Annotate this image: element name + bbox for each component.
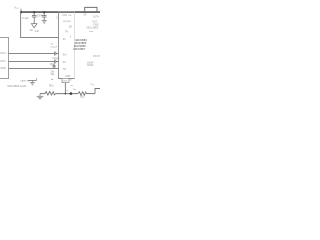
svg-text:CF: CF (30, 29, 34, 32)
label dash mark (51, 78, 53, 80)
svg-text:1nF: 1nF (35, 30, 40, 33)
svg-text:SD: SD (69, 25, 73, 28)
svg-text:IN-: IN- (63, 61, 66, 64)
node VCC label top-left (14, 5, 19, 10)
label right stack 2 (92, 20, 98, 23)
label C5 value (50, 64, 56, 66)
svg-text:GND: GND (65, 75, 71, 78)
pin number 4 (70, 79, 73, 82)
ground G3 (37, 94, 44, 99)
wire GND drop (64, 83, 66, 94)
svg-text:GND: GND (0, 67, 6, 70)
capacitor C1 (32, 13, 37, 24)
pin label right inside a (69, 25, 73, 28)
component FB small box under IC (62, 78, 69, 82)
svg-text:OUT+: OUT+ (93, 17, 100, 19)
wire case gnd (28, 80, 37, 82)
svg-text:50Ω LINES: 50Ω LINES (87, 27, 99, 29)
resistor R2 (78, 92, 87, 95)
label case gnd note (20, 80, 29, 83)
label right stack 5 (89, 30, 94, 33)
svg-text:RD1: RD1 (49, 84, 54, 87)
label right mid 3 (87, 65, 94, 67)
node junction dot E (70, 92, 73, 95)
label C1 value (22, 17, 29, 20)
capacitor C2 (42, 13, 47, 20)
node junction dot C (43, 11, 45, 13)
pin label IN- (63, 61, 66, 64)
label right mid 1 (93, 56, 101, 58)
svg-text:100nF: 100nF (87, 65, 94, 67)
label CD value (35, 30, 40, 33)
label right stack 4 (87, 27, 99, 29)
svg-text:VCC IN: VCC IN (93, 56, 100, 58)
label R2 (80, 96, 85, 99)
capacitor C3 series (55, 52, 56, 56)
wire VCC rail (21, 11, 100, 13)
pin number mark (70, 37, 72, 39)
svg-text:SC: SC (63, 68, 67, 71)
op-amp U1 IC box (59, 12, 75, 79)
label CD (30, 29, 34, 32)
svg-text:0.01µF: 0.01µF (52, 58, 60, 60)
node VCC label bottom right (91, 83, 96, 86)
ground G2 (30, 81, 35, 86)
pin label FB inside top (69, 15, 72, 17)
svg-text:10nF: 10nF (37, 16, 43, 18)
pin label third (63, 68, 67, 71)
label right stack 1 (93, 17, 100, 19)
label R1 (49, 84, 54, 87)
pin label VCC inside top (62, 14, 67, 17)
module J1 left box (0, 38, 9, 79)
label U1 part numbers (75, 38, 87, 42)
wire bottom rail (40, 93, 45, 95)
svg-text:OUT-: OUT- (0, 60, 6, 63)
capacitor C5 (52, 64, 55, 69)
svg-text:IN: IN (63, 38, 66, 41)
pin label IN (63, 38, 66, 41)
capacitor C4 series (55, 60, 56, 64)
svg-text:VCC: VCC (62, 14, 67, 17)
label C2 value (37, 16, 43, 18)
pin number 13 outside left top (56, 18, 59, 20)
svg-text:GND: GND (94, 24, 99, 26)
svg-text:GND: GND (63, 81, 68, 83)
svg-text:50Ω: 50Ω (80, 96, 85, 99)
label note pair (50, 71, 55, 73)
svg-text:OUT+: OUT+ (0, 52, 7, 55)
wire to VCC bottom right (95, 89, 100, 94)
wire IC right edge (faint) (74, 12, 76, 79)
node junction dot D (65, 93, 67, 95)
svg-text:FILTER: FILTER (63, 21, 71, 23)
node junction dot B (33, 11, 35, 13)
svg-text:TH: TH (65, 31, 68, 34)
label FB (63, 81, 68, 83)
wire pin2 (9, 61, 55, 63)
pin label IN+ (63, 54, 67, 57)
label near dot left (66, 90, 69, 92)
resistor R1 (45, 92, 56, 96)
label left pin 3 (0, 67, 6, 70)
label C4 value (52, 58, 60, 60)
wire pin1 (9, 53, 55, 55)
label caption bottom-left (7, 84, 27, 88)
svg-text:0.1µF: 0.1µF (22, 17, 29, 20)
svg-text:IN+: IN+ (63, 54, 67, 57)
pin label right inside b (65, 31, 68, 34)
label C3 value (50, 43, 54, 45)
node junction dot A (20, 11, 22, 13)
wire pin3 (9, 68, 59, 70)
ground for C1 (triangle) (31, 24, 37, 28)
label left pin 2 (0, 60, 6, 63)
pin label FIL inside top (63, 21, 71, 23)
svg-text:100nF: 100nF (87, 62, 94, 64)
label near dot right (73, 89, 77, 91)
ground for C2 (bars) (42, 21, 47, 24)
wire VCC lead down (20, 9, 22, 13)
label under box (71, 84, 74, 87)
pin label GND (65, 75, 71, 78)
label left pin 1 (0, 52, 7, 55)
svg-text:OUT-: OUT- (92, 20, 98, 23)
wire VCC branch down to IN pin (21, 12, 59, 37)
svg-text:15pF: 15pF (50, 64, 56, 66)
label DF pin (84, 14, 88, 16)
wire top-right loop (85, 7, 97, 12)
label right mid 2 (87, 62, 94, 64)
label right stack 3 (94, 24, 99, 26)
svg-text:0.01µF: 0.01µF (50, 47, 58, 49)
